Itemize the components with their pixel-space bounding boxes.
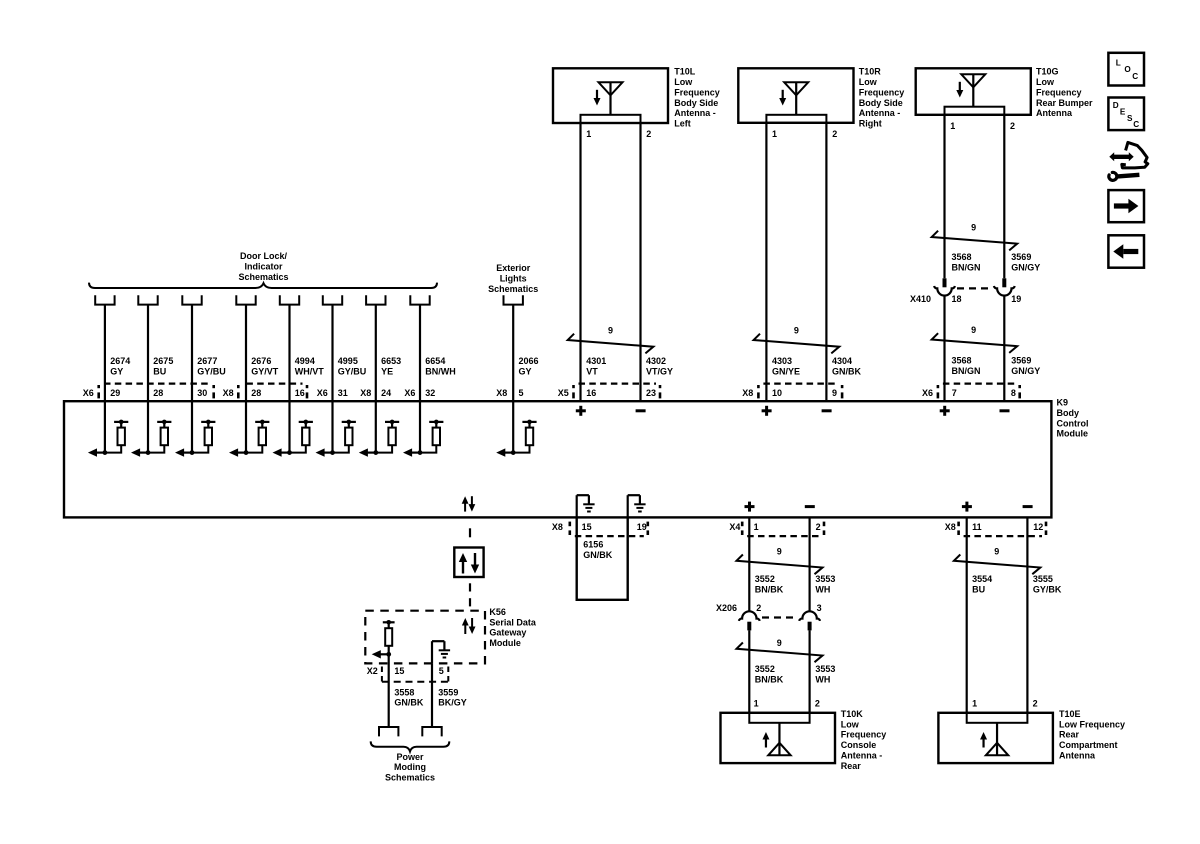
svg-text:31: 31 <box>338 388 348 398</box>
svg-text:3553: 3553 <box>815 664 835 674</box>
svg-text:3: 3 <box>817 603 822 613</box>
svg-text:4303: 4303 <box>772 356 792 366</box>
svg-text:O: O <box>1124 65 1131 74</box>
driver output in K9 for wire 6654 <box>403 401 443 457</box>
svg-text:2677: 2677 <box>197 356 217 366</box>
svg-text:GN/YE: GN/YE <box>772 367 800 377</box>
svg-text:16: 16 <box>586 388 596 398</box>
label T10E <box>1059 709 1125 760</box>
antenna symbol T10K <box>762 723 790 756</box>
svg-text:9: 9 <box>994 546 999 556</box>
wire 2674 GY <box>105 305 130 402</box>
polarity - at pin 2 (X4) <box>805 505 815 508</box>
svg-text:YE: YE <box>381 367 393 377</box>
antenna symbol T10L <box>594 82 623 115</box>
svg-text:GY/BU: GY/BU <box>197 367 226 377</box>
svg-text:23: 23 <box>646 388 656 398</box>
connector X6 label (pin 32) <box>404 388 415 398</box>
antenna symbol T10R <box>779 82 808 115</box>
off-page connector to Door Lock/Indicator Schematics (wire 6653) <box>366 295 385 304</box>
label K9 Body Control Module <box>1057 398 1089 439</box>
connector X8 dashed outline (pins 11,12) <box>959 522 1046 537</box>
connector X8 label (pins 10,9) <box>742 388 753 398</box>
svg-text:Indicator: Indicator <box>244 262 283 272</box>
driver output in K9 for wire 2066 <box>496 401 536 457</box>
svg-text:Frequency: Frequency <box>674 87 720 97</box>
polarity - at pin 12 (X8) <box>1023 505 1033 508</box>
svg-text:X8: X8 <box>360 388 371 398</box>
inline connector X410 dashed mating line <box>957 287 992 289</box>
svg-text:6653: 6653 <box>381 356 401 366</box>
pin 2 T10G <box>1010 121 1015 131</box>
svg-text:K9: K9 <box>1057 398 1069 408</box>
off-page connector to Door Lock/Indicator Schematics (wire 2677) <box>182 295 201 304</box>
svg-text:Body: Body <box>1057 408 1080 418</box>
svg-text:T10E: T10E <box>1059 709 1081 719</box>
wire 2677 GY/BU <box>192 305 226 402</box>
off-page connector to Door Lock/Indicator Schematics (wire 4994) <box>280 295 299 304</box>
wire 3558 GN/BK <box>389 654 424 727</box>
svg-text:Module: Module <box>489 638 521 648</box>
svg-text:9: 9 <box>794 325 799 335</box>
svg-text:3559: 3559 <box>438 687 458 697</box>
wire 2675 BU <box>148 305 173 402</box>
icon LOC button <box>1108 53 1144 86</box>
svg-text:30: 30 <box>197 388 207 398</box>
icon next/forward arrow button <box>1108 190 1144 222</box>
svg-text:GY/VT: GY/VT <box>251 367 279 377</box>
svg-text:X8: X8 <box>945 522 956 532</box>
svg-text:BK/GY: BK/GY <box>438 698 467 708</box>
svg-text:X8: X8 <box>552 522 563 532</box>
twisted pair marker 9 (T10K upper) <box>737 546 823 574</box>
connector X6 dashed outline (pins 7,8) <box>938 384 1020 399</box>
pin 2 T10K <box>815 698 820 708</box>
label T10L <box>674 67 720 129</box>
connector X6 label (pins 7,8) <box>922 388 933 398</box>
pin 1 T10R <box>772 129 777 139</box>
internal ground in K9 at pin 19 <box>628 495 646 517</box>
svg-text:28: 28 <box>251 388 261 398</box>
wire 3553 WH (lower) <box>810 630 836 712</box>
svg-text:1: 1 <box>972 698 977 708</box>
pin 1 T10K <box>754 698 759 708</box>
driver output in K9 for wire 2675 <box>131 401 171 457</box>
svg-text:1: 1 <box>754 698 759 708</box>
svg-text:Compartment: Compartment <box>1059 740 1118 750</box>
driver output in K9 for wire 4995 <box>316 401 356 457</box>
connector X4 dashed outline (pins 1,2) <box>742 522 824 537</box>
wire 4303 GN/YE <box>766 123 800 401</box>
svg-text:Schematics: Schematics <box>385 773 435 783</box>
serial data symbol box <box>454 548 483 578</box>
svg-text:3569: 3569 <box>1011 356 1031 366</box>
polarity + at pin 7 <box>940 406 950 416</box>
wire 6653 YE <box>376 305 401 402</box>
pin 2 T10L <box>646 129 651 139</box>
svg-text:GN/BK: GN/BK <box>832 367 862 377</box>
svg-text:Antenna: Antenna <box>1059 750 1096 760</box>
svg-text:Body Side: Body Side <box>674 98 718 108</box>
pin 19 (X8) <box>637 522 647 532</box>
connector X4 label <box>729 522 740 532</box>
wire 3552 BN/BK (lower) <box>749 630 783 712</box>
off-page connector to Door Lock/Indicator Schematics (wire 2674) <box>95 295 114 304</box>
pin 2 T10R <box>832 129 837 139</box>
svg-text:Exterior: Exterior <box>496 263 531 273</box>
svg-text:X8: X8 <box>223 388 234 398</box>
svg-text:19: 19 <box>637 522 647 532</box>
svg-text:19: 19 <box>1011 294 1021 304</box>
connector X5 dashed outline (pins 16,23) <box>574 384 661 399</box>
pin 23 (X5) <box>646 388 656 398</box>
svg-text:Schematics: Schematics <box>488 284 538 294</box>
svg-text:X2: X2 <box>367 666 378 676</box>
svg-text:15: 15 <box>394 666 404 676</box>
svg-text:BN/GN: BN/GN <box>952 366 981 376</box>
antenna symbol T10E <box>980 723 1008 756</box>
svg-text:Antenna -: Antenna - <box>841 750 883 760</box>
polarity - at pin 23 <box>636 409 646 412</box>
label T10G <box>1036 67 1093 118</box>
svg-text:X6: X6 <box>83 388 94 398</box>
component T10E Low Frequency Rear Compartment Antenna box <box>938 713 1053 763</box>
svg-text:Door Lock/: Door Lock/ <box>240 251 288 261</box>
connector X8 label (pins 28,16) <box>223 388 234 398</box>
svg-text:9: 9 <box>832 388 837 398</box>
svg-text:BN/GN: BN/GN <box>952 263 981 273</box>
svg-text:T10K: T10K <box>841 709 864 719</box>
svg-text:Low Frequency: Low Frequency <box>1059 719 1125 729</box>
off-page connector to Door Lock/Indicator Schematics (wire 2675) <box>138 295 157 304</box>
wire 3568 BN/GN (upper) <box>945 115 981 278</box>
svg-text:9: 9 <box>777 638 782 648</box>
wire 3552 BN/BK (upper) <box>749 517 783 611</box>
off-page connector to Door Lock/Indicator Schematics (wire 2676) <box>236 295 255 304</box>
svg-text:3568: 3568 <box>952 356 972 366</box>
svg-text:4995: 4995 <box>338 356 358 366</box>
svg-text:4994: 4994 <box>295 356 315 366</box>
svg-text:3555: 3555 <box>1033 574 1053 584</box>
svg-text:Low: Low <box>859 77 878 87</box>
pin 11 (X8) <box>972 522 982 532</box>
connector X8 label (pin 5) <box>496 388 507 398</box>
connector X6 label (pin 31) <box>317 388 328 398</box>
svg-text:C: C <box>1133 120 1139 129</box>
svg-text:3552: 3552 <box>755 574 775 584</box>
svg-text:6654: 6654 <box>425 356 445 366</box>
svg-text:18: 18 <box>952 294 962 304</box>
label T10R <box>859 67 905 129</box>
wire 4301 VT <box>581 123 607 401</box>
driver output in K9 for wire 2676 <box>229 401 269 457</box>
off-page connector to Door Lock/Indicator Schematics (wire 6654) <box>410 295 429 304</box>
pin 1 T10E <box>972 698 977 708</box>
pin 5 (X2) <box>439 666 444 676</box>
pin 15 (X2) <box>394 666 404 676</box>
svg-text:Module: Module <box>1057 429 1089 439</box>
svg-text:Rear: Rear <box>841 761 862 771</box>
svg-text:Frequency: Frequency <box>841 730 887 740</box>
svg-text:Lights: Lights <box>500 274 527 284</box>
inline connector X206 pin 2 terminals <box>739 611 760 630</box>
antenna symbol T10G <box>956 74 985 106</box>
serial data arrows inside K56 <box>462 618 476 634</box>
pin 2 (X4) <box>816 522 821 532</box>
svg-text:Antenna: Antenna <box>1036 108 1073 118</box>
svg-text:4302: 4302 <box>646 356 666 366</box>
polarity - at pin 9 <box>822 409 832 412</box>
svg-text:X6: X6 <box>404 388 415 398</box>
section label Exterior Lights Schematics <box>488 263 538 294</box>
connector X8 label (pins 15,19) <box>552 522 563 532</box>
svg-text:X8: X8 <box>496 388 507 398</box>
svg-text:29: 29 <box>110 388 120 398</box>
svg-text:32: 32 <box>425 388 435 398</box>
inline connector X410 label <box>910 294 931 304</box>
svg-text:X4: X4 <box>729 522 740 532</box>
pin 10 (X8) <box>772 388 782 398</box>
wire 6654 BN/WH <box>420 305 456 402</box>
pin 1 T10L <box>586 129 591 139</box>
svg-text:X8: X8 <box>742 388 753 398</box>
wire 3554 BU <box>967 517 992 712</box>
svg-text:28: 28 <box>153 388 163 398</box>
svg-text:K56: K56 <box>489 607 506 617</box>
svg-text:2: 2 <box>646 129 651 139</box>
wire 4304 GN/BK <box>826 123 861 401</box>
svg-text:Power: Power <box>396 752 424 762</box>
svg-text:GY/BU: GY/BU <box>338 367 367 377</box>
connector bar T10E <box>967 713 1028 723</box>
inline connector X206 pin 3 terminals <box>799 611 820 630</box>
svg-text:2: 2 <box>816 522 821 532</box>
svg-text:X6: X6 <box>317 388 328 398</box>
connector X2 label <box>367 666 378 676</box>
pin 19 (X410) <box>1011 294 1021 304</box>
svg-text:X410: X410 <box>910 294 931 304</box>
svg-text:Moding: Moding <box>394 762 426 772</box>
wire 6156 GN/BK ground loop <box>577 517 628 599</box>
wire 4302 VT/GY <box>641 123 674 401</box>
svg-text:3568: 3568 <box>952 252 972 262</box>
svg-text:GY/BK: GY/BK <box>1033 584 1062 594</box>
svg-text:7: 7 <box>952 388 957 398</box>
connector X5 label <box>558 388 569 398</box>
component T10R Low Frequency Body Side Antenna - Right box <box>738 68 853 123</box>
pin 1 T10G <box>950 121 955 131</box>
pin 2 T10E <box>1033 698 1038 708</box>
svg-text:Rear: Rear <box>1059 730 1080 740</box>
svg-text:4301: 4301 <box>586 356 606 366</box>
svg-text:3558: 3558 <box>394 687 414 697</box>
pin 18 (X410) <box>952 294 962 304</box>
svg-text:Frequency: Frequency <box>1036 87 1082 97</box>
svg-text:WH: WH <box>815 674 830 684</box>
section label Power Moding Schematics <box>385 752 435 783</box>
twisted pair marker 9 (T10L) <box>568 325 654 353</box>
svg-text:2: 2 <box>1010 121 1015 131</box>
polarity + at pin 11 (X8) <box>962 502 972 512</box>
connector X8 label (pin 24) <box>360 388 371 398</box>
svg-text:2675: 2675 <box>153 356 173 366</box>
svg-text:Console: Console <box>841 740 877 750</box>
wire 3569 GN/GY (upper) <box>1004 115 1040 278</box>
svg-text:9: 9 <box>971 325 976 335</box>
svg-text:1: 1 <box>586 129 591 139</box>
off-page connector to Power Moding Schematics (wire 3558) <box>379 727 398 736</box>
pin 7 (X6) <box>952 388 957 398</box>
connector X6 label (pins 29,28,30) <box>83 388 94 398</box>
off-page connector to Door Lock/Indicator Schematics (wire 4995) <box>323 295 342 304</box>
svg-text:5: 5 <box>439 666 444 676</box>
pin 9 (X8) <box>832 388 837 398</box>
pin 15 (X8) <box>582 522 592 532</box>
component T10L Low Frequency Body Side Antenna - Left box <box>553 68 668 123</box>
svg-text:2: 2 <box>815 698 820 708</box>
svg-text:D: D <box>1113 101 1119 110</box>
svg-text:Gateway: Gateway <box>489 628 526 638</box>
svg-text:15: 15 <box>582 522 592 532</box>
svg-text:GN/GY: GN/GY <box>1011 366 1040 376</box>
svg-text:12: 12 <box>1033 522 1043 532</box>
svg-text:C: C <box>1132 72 1138 81</box>
polarity + at pin 1 (X4) <box>745 502 755 512</box>
svg-text:Antenna -: Antenna - <box>674 108 716 118</box>
driver output in K9 for wire 6653 <box>359 401 399 457</box>
connector bar T10G <box>945 107 1005 115</box>
icon vehicle/wrench (harness view) <box>1109 142 1148 180</box>
connector bar T10K <box>749 713 809 723</box>
inline connector X410 pin 19 terminals <box>994 278 1015 295</box>
driver output in K9 for wire 2674 <box>88 401 128 457</box>
svg-text:2674: 2674 <box>110 356 130 366</box>
icon DESC button <box>1108 98 1144 131</box>
wire 4995 GY/BU <box>333 305 367 402</box>
inline connector X410 pin 18 terminals <box>934 278 955 295</box>
svg-text:Antenna -: Antenna - <box>859 108 901 118</box>
svg-text:8: 8 <box>1011 388 1016 398</box>
wire 2066 GY <box>513 305 538 402</box>
svg-text:1: 1 <box>950 121 955 131</box>
svg-text:Low: Low <box>674 77 693 87</box>
svg-text:Low: Low <box>841 719 860 729</box>
svg-text:11: 11 <box>972 522 982 532</box>
driver output in K9 for wire 4994 <box>273 401 313 457</box>
svg-text:Serial Data: Serial Data <box>489 617 537 627</box>
off-page connector to Exterior Lights Schematics <box>504 295 523 304</box>
label T10K <box>841 709 887 771</box>
svg-text:X206: X206 <box>716 603 737 613</box>
svg-text:24: 24 <box>381 388 391 398</box>
wire 3553 WH (upper) <box>810 517 836 611</box>
svg-text:L: L <box>1116 58 1121 67</box>
wire 3559 BK/GY <box>432 663 467 727</box>
serial data arrows at K9 bottom <box>462 496 476 511</box>
svg-text:3553: 3553 <box>815 574 835 584</box>
svg-text:3569: 3569 <box>1011 252 1031 262</box>
svg-text:Body Side: Body Side <box>859 98 903 108</box>
pin 8 (X6) <box>1011 388 1016 398</box>
svg-text:3554: 3554 <box>972 574 992 584</box>
svg-text:GN/BK: GN/BK <box>583 550 613 560</box>
svg-text:Control: Control <box>1057 418 1089 428</box>
component T10G Low Frequency Rear Bumper Antenna box <box>916 68 1031 115</box>
brace Power Moding Schematics <box>371 741 450 751</box>
twisted pair marker 9 (T10G lower) <box>932 325 1018 353</box>
wire 3555 GY/BK <box>1027 517 1062 712</box>
svg-text:S: S <box>1127 114 1133 123</box>
svg-text:BN/WH: BN/WH <box>425 367 456 377</box>
svg-text:BU: BU <box>972 584 985 594</box>
svg-text:9: 9 <box>777 546 782 556</box>
connector bar T10L <box>581 115 641 123</box>
twisted pair marker 9 (T10G upper) <box>932 223 1018 251</box>
wire 4994 WH/VT <box>290 305 325 402</box>
pin 3 (X206) <box>817 603 822 613</box>
svg-text:VT: VT <box>586 367 598 377</box>
svg-text:Low: Low <box>1036 77 1055 87</box>
svg-text:Right: Right <box>859 118 882 128</box>
svg-text:WH: WH <box>815 584 830 594</box>
wire 2676 GY/VT <box>246 305 279 402</box>
twisted pair marker 9 (T10K lower) <box>737 638 823 662</box>
svg-text:16: 16 <box>295 388 305 398</box>
brace Door Lock/Indicator Schematics <box>89 283 437 288</box>
ground symbol inside K56 (pin 5) <box>432 641 450 663</box>
svg-text:X6: X6 <box>922 388 933 398</box>
svg-text:GY: GY <box>110 367 123 377</box>
twisted pair marker 9 (T10R) <box>754 325 840 353</box>
wire 3569 GN/GY (lower) <box>1004 296 1040 402</box>
svg-text:E: E <box>1120 108 1126 117</box>
svg-text:BU: BU <box>153 367 166 377</box>
twisted pair marker 9 (T10E) <box>954 546 1040 574</box>
svg-text:10: 10 <box>772 388 782 398</box>
svg-text:BN/BK: BN/BK <box>755 584 784 594</box>
svg-text:6156: 6156 <box>583 540 603 550</box>
connector X8 dashed outline (pins 28,16) <box>238 384 307 399</box>
svg-text:2676: 2676 <box>251 356 271 366</box>
svg-text:GN/BK: GN/BK <box>394 698 424 708</box>
svg-text:T10G: T10G <box>1036 67 1059 77</box>
svg-text:2066: 2066 <box>519 356 539 366</box>
svg-text:9: 9 <box>971 223 976 233</box>
svg-text:2: 2 <box>1033 698 1038 708</box>
pin 1 (X4) <box>754 522 759 532</box>
svg-text:2: 2 <box>756 603 761 613</box>
wire 3568 BN/GN (lower) <box>945 296 981 402</box>
svg-text:T10R: T10R <box>859 67 882 77</box>
section label Door Lock/Indicator Schematics <box>238 251 288 282</box>
svg-text:5: 5 <box>519 388 524 398</box>
connector X2 dashed outline (pins 15,5) <box>382 667 448 682</box>
pin 16 (X5) <box>586 388 596 398</box>
module K9 Body Control Module box <box>64 401 1051 517</box>
connector X8 dashed outline (pins 10,9) <box>758 384 842 399</box>
connector X8 dashed outline (pins 15,19) <box>570 522 648 537</box>
connector X8 label (pins 11,12) <box>945 522 956 532</box>
inline connector X206 dashed mating line <box>762 616 797 618</box>
dashed serial data wire (symbol to K56) <box>469 583 471 606</box>
svg-text:Left: Left <box>674 118 691 128</box>
module K56 Serial Data Gateway Module dashed box <box>365 611 485 664</box>
svg-text:Schematics: Schematics <box>238 272 288 282</box>
svg-text:WH/VT: WH/VT <box>295 367 324 377</box>
svg-text:T10L: T10L <box>674 67 696 77</box>
svg-text:GN/GY: GN/GY <box>1011 263 1040 273</box>
component T10K Low Frequency Console Antenna - Rear box <box>721 713 836 763</box>
